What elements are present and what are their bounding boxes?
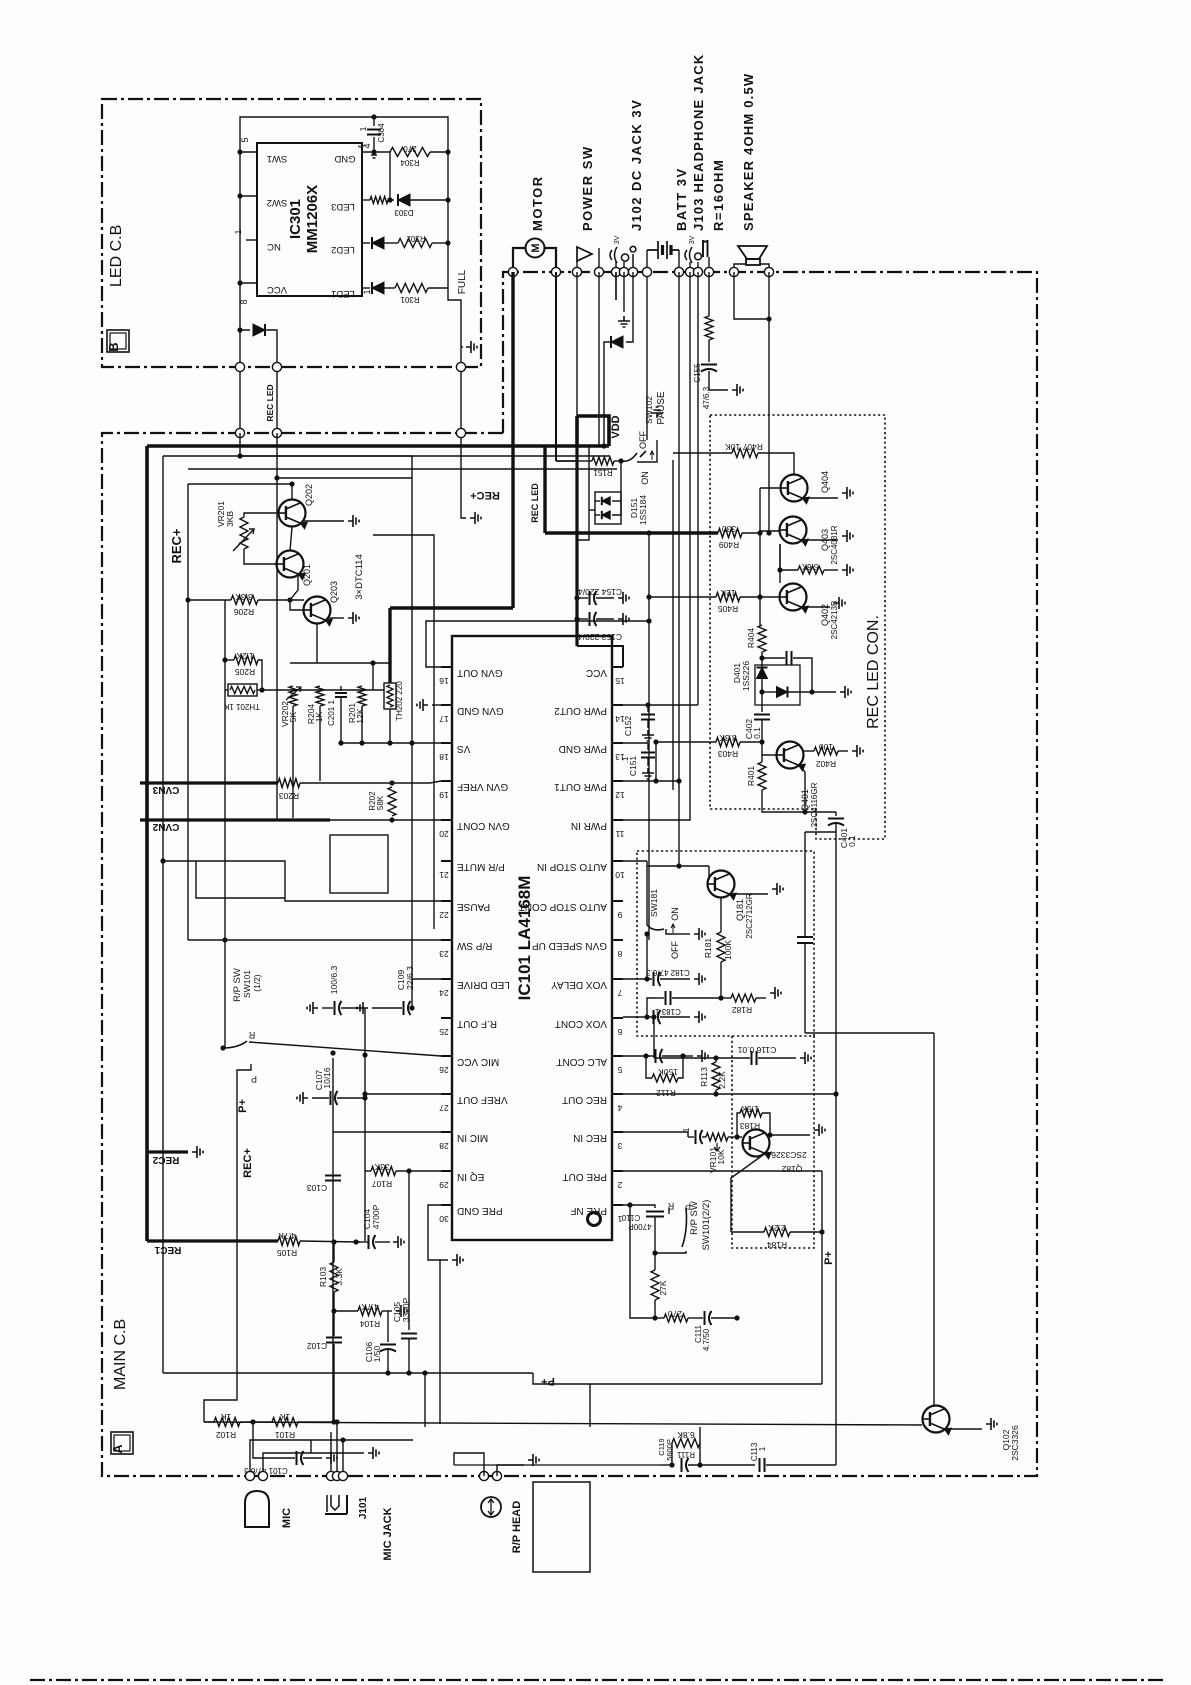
svg-text:2SC3326: 2SC3326	[1010, 1425, 1020, 1461]
capacitor C1 + VR101 10K	[690, 1136, 694, 1138]
wire Q102 base row (long)	[204, 1422, 922, 1425]
svg-text:R401: R401	[746, 766, 756, 787]
svg-text:100K: 100K	[723, 940, 733, 960]
wires battery leads	[646, 250, 648, 272]
IC101 pin 1 marker	[588, 1213, 601, 1226]
wire Q203 emitter to ground	[328, 617, 344, 619]
resistor R404	[758, 625, 766, 652]
wire MIC leads	[250, 1440, 413, 1476]
svg-text:4700P: 4700P	[628, 1222, 651, 1231]
wire left rail x188	[187, 484, 189, 940]
svg-text:PAUSE: PAUSE	[656, 391, 667, 424]
svg-text:J101: J101	[358, 1496, 369, 1519]
svg-text:M: M	[530, 243, 542, 252]
svg-text:16: 16	[439, 676, 449, 686]
svg-text:VCC: VCC	[267, 284, 287, 295]
svg-text:2: 2	[617, 1180, 622, 1190]
switch SW102 PAUSE	[621, 453, 637, 461]
svg-text:R302: R302	[406, 234, 426, 243]
ground at pin17 GVN GND	[432, 704, 441, 706]
switch SW101 1/2	[220, 1045, 225, 1050]
svg-text:EQ IN: EQ IN	[457, 1171, 484, 1182]
wire pin10 AUTO STOP IN row	[623, 860, 647, 862]
wire VOX sense branch	[805, 831, 836, 833]
capacitor C182 47/6.3 on VOX DELAY pin7	[623, 978, 652, 980]
page bottom trim line (dash-dot)	[30, 1679, 1165, 1681]
wire head leads	[483, 1465, 485, 1476]
svg-text:2SC3326: 2SC3326	[771, 1150, 807, 1160]
svg-text:3.3K: 3.3K	[235, 592, 253, 602]
wire VCC thick branch down	[575, 446, 578, 646]
svg-text:R405: R405	[718, 604, 739, 614]
svg-text:18: 18	[439, 752, 449, 762]
wire CVN2 bus (thick)	[140, 818, 330, 821]
resistor R102 1K	[204, 1421, 214, 1423]
resistor R103 3.3K	[330, 1262, 338, 1292]
svg-text:REC IN: REC IN	[573, 1132, 607, 1143]
svg-text:IC301: IC301	[287, 199, 304, 239]
wire vr101 feed	[688, 1136, 690, 1138]
wire Q403 emitter ground	[802, 539, 838, 541]
wire REC IN pin3 row	[623, 1132, 688, 1137]
resistor R107 33K on EQ IN pin29	[365, 1170, 371, 1172]
svg-text:NC: NC	[267, 241, 281, 252]
wire PRE OUT pin2 row	[623, 1170, 822, 1172]
wire bottom gray row	[454, 1464, 660, 1466]
wire x373 drop	[372, 663, 374, 690]
wire VR202 bottom to CVN2	[292, 706, 294, 818]
svg-text:OFF: OFF	[670, 941, 680, 959]
svg-text:27K: 27K	[658, 1280, 668, 1295]
svg-text:MIC IN: MIC IN	[457, 1132, 488, 1143]
svg-text:FULL: FULL	[457, 269, 468, 294]
wire headphone left drop to PWR IN pin11	[623, 272, 690, 820]
svg-text:R182: R182	[732, 1005, 753, 1015]
svg-text:3KB: 3KB	[225, 511, 235, 527]
wire Q181 emitter to ground	[730, 893, 768, 895]
wire R304 left drop to LED3 row	[389, 152, 391, 200]
svg-text:GVN SPEED UP: GVN SPEED UP	[532, 940, 607, 951]
resistor on headphone tip lead	[708, 272, 710, 316]
wire speaker right drop	[768, 272, 770, 533]
svg-text:2.2K: 2.2K	[768, 1223, 786, 1233]
resistor R302	[398, 239, 432, 248]
svg-text:P/R MUTE: P/R MUTE	[457, 861, 505, 872]
svg-text:C102: C102	[307, 1341, 328, 1351]
svg-text:Q201: Q201	[302, 564, 312, 586]
svg-text:REC LED: REC LED	[265, 384, 275, 421]
wire Q203 base	[290, 600, 304, 610]
svg-text:C153 220/4: C153 220/4	[578, 632, 622, 642]
wire REC2 spur with ground	[147, 1150, 188, 1153]
REC LED CON dotted box	[710, 415, 885, 839]
wire LED2 row	[362, 242, 370, 244]
svg-text:REC+: REC+	[470, 489, 500, 501]
wire motor leads	[513, 248, 526, 272]
svg-text:CVN2: CVN2	[152, 821, 179, 832]
wire x440 vertical	[439, 1260, 441, 1424]
wire GND pin to C304 / ground	[362, 151, 390, 153]
svg-text:PRE NF: PRE NF	[570, 1205, 607, 1216]
wire D151 to thick rail	[589, 509, 595, 511]
resistor R403 3.3K	[656, 741, 716, 743]
svg-text:9: 9	[617, 910, 622, 920]
svg-text:10/16: 10/16	[322, 1067, 332, 1089]
resistor on LED3 row	[370, 197, 388, 204]
svg-text:100/6.3: 100/6.3	[329, 966, 339, 995]
svg-text:LED2: LED2	[331, 244, 355, 255]
svg-text:8: 8	[617, 949, 622, 959]
svg-text:C110: C110	[621, 1213, 640, 1222]
resistor R101 1K	[272, 1418, 298, 1427]
svg-text:17: 17	[439, 714, 449, 724]
svg-text:3.3K: 3.3K	[719, 733, 737, 743]
transistor Q201	[277, 551, 304, 578]
svg-text:R206: R206	[234, 607, 255, 617]
resistor 5.6K	[780, 544, 798, 570]
svg-text:PRE GND: PRE GND	[457, 1205, 503, 1216]
svg-text:C152: C152	[623, 716, 633, 737]
svg-text:2SC4213B: 2SC4213B	[830, 601, 839, 640]
capacitor C183 1 on VOX CONT pin6	[623, 1016, 652, 1018]
connector circles J103	[685, 267, 694, 276]
wire nest line 2 x277 down	[276, 433, 278, 478]
wire IC301 top rail	[240, 117, 448, 156]
svg-text:10K: 10K	[716, 1149, 726, 1164]
svg-text:3.3K: 3.3K	[334, 1268, 344, 1286]
VOX dotted box	[732, 1036, 814, 1248]
wire B box left exit	[239, 330, 241, 367]
wire x333 vertical	[332, 1058, 334, 1422]
svg-text:1K: 1K	[220, 1412, 231, 1422]
svg-text:Q202: Q202	[304, 484, 314, 506]
svg-text:2SC4081R: 2SC4081R	[830, 525, 839, 564]
diode on LED2 row	[372, 237, 384, 249]
resistor R183 1.5K loop	[737, 1113, 740, 1137]
wire x225 to SW101 common	[223, 940, 225, 1048]
svg-text:PWR IN: PWR IN	[571, 820, 607, 831]
wire bottom crossbar y1427	[424, 1373, 426, 1427]
IC301 MM1206X body	[257, 143, 362, 296]
svg-text:C103: C103	[307, 1183, 328, 1193]
svg-text:VOX DELAY: VOX DELAY	[551, 979, 607, 990]
resistor R401	[758, 762, 766, 790]
svg-text:12K: 12K	[720, 588, 735, 598]
R/P head box	[533, 1482, 590, 1572]
wire Q181 base/collector	[708, 866, 710, 880]
capacitor C304	[373, 117, 375, 126]
wire x434 vertical	[373, 535, 434, 929]
resistor R111 6.8K + capacitor C119 5600P	[660, 1464, 672, 1466]
wire GVN speed line x679	[678, 272, 680, 866]
wire J102 drops	[615, 272, 617, 300]
transistor Q182 2SC3326	[743, 1130, 770, 1157]
capacitor C401 0.1	[835, 812, 837, 816]
svg-text:VS: VS	[457, 743, 471, 754]
svg-text:7: 7	[617, 988, 622, 998]
wire x277 line down	[276, 478, 278, 820]
svg-text:30: 30	[439, 1214, 449, 1224]
resistor R402 100	[804, 750, 814, 752]
svg-text:GVN VREF: GVN VREF	[457, 781, 508, 792]
svg-text:R/P SW: R/P SW	[689, 1201, 700, 1235]
capacitor on R181 node	[655, 997, 664, 999]
wires speaker leads	[734, 264, 746, 272]
svg-text:R151: R151	[593, 468, 613, 477]
svg-text:SW1: SW1	[267, 153, 288, 164]
connector circles J101	[326, 1471, 335, 1480]
svg-text:1: 1	[682, 1127, 691, 1132]
svg-text:R181: R181	[703, 938, 713, 959]
thermistor TH201 1K	[228, 684, 257, 696]
transistor Q404	[781, 475, 808, 502]
svg-text:0.1: 0.1	[847, 835, 857, 847]
svg-text:Q404: Q404	[820, 471, 830, 493]
wire Q182 collector to ground	[766, 1134, 810, 1136]
transistor Q102 2SC3326	[923, 1406, 950, 1433]
wire R contact to MIC VCC pin26	[249, 1042, 441, 1056]
svg-text:R304: R304	[400, 158, 420, 167]
svg-text:SPEAKER 4OHM 0.5W: SPEAKER 4OHM 0.5W	[741, 73, 756, 231]
connector circles speaker	[729, 267, 738, 276]
svg-text:3V: 3V	[614, 235, 621, 244]
wire Q202-Q201 stack	[290, 527, 292, 551]
wire Q202 emitter to ground	[303, 520, 344, 522]
wire REC+ nest line 1	[163, 455, 610, 457]
wire motor thick drops	[511, 272, 514, 608]
svg-text:LED1: LED1	[331, 288, 355, 299]
svg-text:R111: R111	[676, 1450, 694, 1459]
svg-text:1: 1	[617, 1214, 622, 1224]
wire IC301 right rail down to FULL	[447, 152, 449, 288]
wire P+ right vertical	[821, 1171, 823, 1384]
svg-text:REC+: REC+	[169, 528, 184, 563]
svg-text:R301: R301	[400, 295, 420, 304]
svg-text:TH201 1K: TH201 1K	[223, 702, 260, 711]
wires J102 leads	[615, 261, 617, 272]
capacitor C152 on PWR OUT2	[623, 704, 648, 706]
resistor R203	[278, 779, 300, 788]
svg-text:C154 220/4: C154 220/4	[578, 587, 622, 597]
transistor Q402	[740, 596, 760, 598]
svg-text:4700P: 4700P	[371, 1204, 381, 1229]
svg-text:POWER SW: POWER SW	[580, 145, 595, 231]
svg-text:VCC: VCC	[586, 667, 607, 678]
svg-text:B: B	[106, 342, 121, 351]
svg-text:R183: R183	[740, 1121, 761, 1131]
svg-text:6.8K: 6.8K	[677, 1430, 695, 1440]
svg-text:CVN3: CVN3	[152, 784, 179, 795]
svg-text:Q181: Q181	[735, 899, 745, 921]
svg-text:4: 4	[617, 1103, 622, 1113]
capacitor bypass at D401	[762, 657, 785, 659]
wire REC LED between boards	[239, 372, 241, 433]
svg-text:P+: P+	[237, 1099, 249, 1113]
wire J102 sleeve drop	[615, 272, 617, 300]
svg-text:PAUSE: PAUSE	[457, 901, 490, 912]
connector circles on MAIN box top border	[235, 428, 244, 437]
resistor 270	[655, 1317, 664, 1319]
svg-text:270: 270	[403, 144, 417, 153]
svg-text:1: 1	[359, 126, 368, 131]
svg-text:REC2: REC2	[152, 1154, 179, 1165]
svg-text:SW181: SW181	[649, 889, 659, 917]
capacitor on VOX line	[797, 936, 813, 938]
connector footprint box (empty)	[330, 835, 388, 893]
wires J103 leads	[689, 262, 691, 272]
wire REC OUT pin4 long row	[623, 1093, 836, 1095]
wire Q102 emitter ground	[946, 1428, 982, 1430]
svg-text:22/6.3: 22/6.3	[405, 966, 415, 990]
svg-text:R113: R113	[699, 1067, 709, 1087]
connector circles R/P head	[479, 1471, 488, 1480]
svg-text:PWR GND: PWR GND	[559, 743, 607, 754]
svg-text:R203: R203	[279, 791, 300, 801]
wire long vertical x649	[648, 533, 650, 940]
svg-text:MIC VCC: MIC VCC	[457, 1056, 499, 1067]
diode REC LED feed in B box	[240, 283, 250, 330]
wire pin22 PAUSE net run	[163, 861, 441, 901]
wire base bias vertical	[760, 487, 780, 489]
label: boxed B	[107, 330, 129, 352]
svg-text:21: 21	[439, 870, 449, 880]
svg-text:58K: 58K	[376, 795, 385, 810]
wire J101 leads	[330, 1432, 332, 1476]
capacitor C101 47/6.3	[253, 1422, 295, 1458]
svg-text:P+: P+	[541, 1375, 555, 1387]
svg-text:4.7K: 4.7K	[278, 1231, 296, 1241]
wire pin30 PRE GND loop to ground	[428, 1205, 448, 1260]
svg-text:28: 28	[439, 1141, 449, 1151]
power switch triangle symbol	[577, 247, 592, 261]
resistor R409 330	[718, 529, 742, 538]
resistor R405 12K	[649, 596, 716, 598]
svg-text:VREF OUT: VREF OUT	[457, 1094, 508, 1105]
svg-text:5.6K: 5.6K	[801, 562, 818, 571]
svg-text:5: 5	[240, 137, 250, 142]
svg-text:R=16OHM: R=16OHM	[711, 159, 726, 231]
svg-text:270: 270	[668, 1309, 682, 1319]
svg-text:33K: 33K	[374, 1162, 389, 1172]
wire pin28 MIC IN run	[333, 1131, 441, 1133]
ground inside B box bottom right	[461, 346, 463, 348]
wire servo top rail	[188, 483, 292, 485]
board outline B: LED C.B box border (dash-dot)	[102, 99, 481, 367]
svg-text:R101: R101	[275, 1430, 296, 1440]
svg-text:12: 12	[615, 790, 625, 800]
svg-text:P: P	[251, 1074, 257, 1084]
svg-text:2.2K: 2.2K	[717, 1071, 727, 1089]
svg-text:R107: R107	[372, 1179, 393, 1189]
connector circles mic	[245, 1471, 254, 1480]
svg-text:1K: 1K	[279, 1412, 290, 1422]
wire pin12 PWR OUT1 feed	[623, 780, 679, 782]
resistor R407 10K	[673, 452, 732, 454]
svg-text:1: 1	[362, 289, 372, 294]
wire headphone mid drop to PWR OUT2	[697, 272, 699, 705]
wire P contact down	[204, 1064, 251, 1422]
wire REC OUT row end dot	[833, 1091, 838, 1096]
svg-text:J102 DC JACK 3V: J102 DC JACK 3V	[629, 99, 644, 231]
svg-text:47/6.3: 47/6.3	[702, 386, 711, 409]
svg-text:15: 15	[615, 676, 625, 686]
resistor R304 270	[390, 148, 430, 157]
transistor Q403	[742, 532, 760, 534]
wire pin27 VREF OUT run	[365, 1093, 441, 1095]
wire GVN OUT pin16 hook above IC	[426, 621, 649, 667]
wire Q203 collector down	[316, 623, 318, 663]
svg-text:IC101 LA4168M: IC101 LA4168M	[515, 876, 534, 1001]
svg-text:3V: 3V	[689, 235, 696, 244]
resistor R205 1.2K	[224, 600, 226, 690]
resistor R112 150K loop on ALC CONT pin5	[623, 1055, 650, 1057]
svg-text:MAIN C.B: MAIN C.B	[112, 1319, 129, 1390]
wire pause net stub box	[196, 861, 285, 898]
svg-text:2SC2712GR: 2SC2712GR	[745, 893, 754, 939]
svg-text:P+: P+	[823, 1251, 835, 1265]
svg-text:12K: 12K	[355, 708, 365, 723]
svg-text:C201 1: C201 1	[327, 700, 336, 726]
wire REC1 thick spur	[147, 1239, 278, 1242]
svg-text:MIC JACK: MIC JACK	[382, 1507, 394, 1560]
wire power sw leads	[576, 261, 578, 272]
svg-text:330: 330	[722, 524, 736, 534]
capacitor C104 4700P	[356, 1241, 368, 1243]
svg-text:MM1206X: MM1206X	[304, 185, 321, 253]
svg-text:SW2: SW2	[267, 197, 288, 208]
svg-text:R: R	[248, 1030, 255, 1040]
svg-text:1.2K: 1.2K	[236, 651, 254, 661]
transistor Q401	[762, 742, 776, 755]
svg-text:ON: ON	[670, 907, 680, 921]
svg-text:ALC CONT: ALC CONT	[556, 1056, 607, 1067]
svg-text:R102: R102	[216, 1430, 237, 1440]
wire x240 REC+ entry	[239, 433, 241, 456]
svg-text:LED C.B: LED C.B	[108, 225, 125, 287]
resistor R202 58K	[388, 787, 396, 816]
svg-text:LED3: LED3	[331, 201, 355, 212]
svg-text:GVN CONT: GVN CONT	[457, 820, 510, 831]
svg-text:REC LED: REC LED	[530, 483, 540, 523]
wire x654 to C116 row	[653, 1017, 655, 1058]
svg-text:C304: C304	[377, 123, 386, 143]
svg-text:R105: R105	[277, 1248, 298, 1258]
svg-text:27: 27	[439, 1103, 449, 1113]
connector circles power sw	[572, 267, 581, 276]
wire mic bias row	[311, 1452, 364, 1454]
svg-text:26: 26	[439, 1065, 449, 1075]
wire REC+ nest line 2	[188, 468, 617, 470]
capacitor C402 0.1	[761, 692, 763, 712]
diode D303	[398, 194, 410, 206]
svg-text:4.7/50: 4.7/50	[702, 1328, 711, 1351]
svg-text:R184: R184	[767, 1240, 788, 1250]
wire R204 bottom to CVN3	[319, 706, 321, 781]
svg-text:2SC4116GR: 2SC4116GR	[810, 782, 819, 827]
wire CVN3 bus (thick)	[140, 781, 278, 784]
wire Q402 emitter	[802, 606, 830, 608]
transistor Q181 2SC2712GR	[708, 871, 735, 898]
svg-text:SW102: SW102	[644, 396, 654, 424]
svg-text:1/50: 1/50	[372, 1345, 382, 1362]
wire P+ bus bottom	[163, 1372, 533, 1374]
svg-text:J103 HEADPHONE JACK: J103 HEADPHONE JACK	[691, 54, 706, 231]
wire Q401 emitter junction	[799, 765, 805, 812]
svg-text:C182 47/6.3: C182 47/6.3	[646, 968, 690, 977]
wire VOX line corner to Q102	[805, 1032, 934, 1034]
svg-text:1SS226: 1SS226	[741, 661, 751, 692]
svg-text:R.F OUT: R.F OUT	[457, 1018, 497, 1029]
